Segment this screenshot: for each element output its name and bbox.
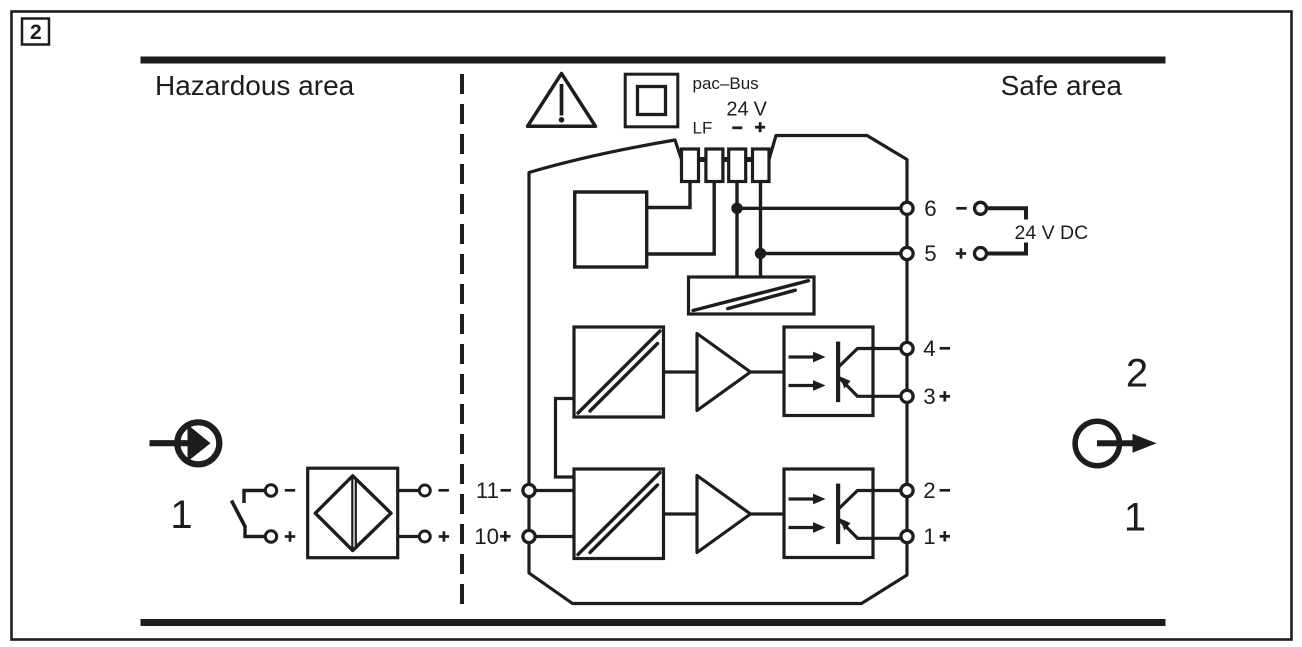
- channel 2 amplifier: [697, 476, 751, 553]
- channel 1 amplifier: [697, 334, 751, 411]
- svg-text:V: V: [754, 98, 768, 120]
- figure number box 2: [22, 19, 49, 45]
- 24 V DC supply minus sign: [956, 207, 966, 210]
- svg-text:3: 3: [923, 384, 935, 409]
- wire terminal 10 to channel2 iso: [529, 535, 574, 538]
- svg-text:Safe area: Safe area: [1001, 70, 1123, 101]
- svg-text:24: 24: [726, 98, 748, 120]
- channel 2 output stage: [784, 469, 900, 558]
- svg-text:4: 4: [923, 336, 935, 361]
- pin 24V plus: [753, 149, 770, 182]
- wire sensor box to terminal circle upper: [398, 489, 419, 492]
- svg-text:Hazardous area: Hazardous area: [155, 70, 355, 101]
- wire to terminal 5: [761, 252, 901, 255]
- switch contact: [232, 485, 277, 542]
- terminal 4: [901, 342, 913, 354]
- warning triangle: [528, 74, 596, 127]
- wire terminal 11 to channel2 iso: [529, 489, 574, 492]
- label sensor minus: [439, 489, 449, 492]
- svg-text:24 V DC: 24 V DC: [1015, 222, 1089, 244]
- wire channel2 iso to amplifier: [664, 512, 698, 515]
- sensor output circle plus: [419, 531, 430, 542]
- terminal 6: [901, 202, 913, 214]
- 24 V DC supply plus sign: [956, 248, 966, 258]
- terminal 11: [523, 484, 535, 496]
- terminal 2: [901, 484, 913, 496]
- 24 V DC supply plus circle: [975, 248, 987, 260]
- output symbol circle arrow: [1075, 421, 1156, 465]
- bottom boundary bar: [141, 619, 1166, 626]
- svg-text:2: 2: [1126, 351, 1148, 395]
- terminal 5: [901, 247, 913, 259]
- cascade wire channel1 iso to channel2 iso: [556, 399, 575, 478]
- wire 24VDC lower: [988, 243, 1027, 254]
- device outline: [529, 136, 907, 604]
- channel 2 isolation block: [574, 469, 664, 559]
- svg-text:5: 5: [924, 241, 936, 266]
- channel 1 isolation block: [574, 327, 664, 417]
- pin connector bar: [681, 157, 769, 162]
- protection class II double square symbol: [625, 74, 678, 127]
- junction dot pin3 bus: [731, 203, 742, 214]
- label switch minus: [285, 489, 295, 492]
- svg-text:pac–Bus: pac–Bus: [693, 74, 759, 93]
- wire 24VDC upper: [988, 208, 1027, 219]
- hazardous/safe divider dashed line: [460, 74, 464, 614]
- wire to terminal 6: [737, 207, 900, 210]
- 24 V DC supply minus circle: [975, 202, 987, 214]
- svg-text:2: 2: [30, 21, 42, 44]
- svg-text:11: 11: [476, 478, 499, 503]
- wire channel2 amplifier to output stage: [751, 512, 785, 515]
- svg-text:2: 2: [923, 478, 935, 503]
- terminal 3: [901, 390, 913, 402]
- svg-text:1: 1: [923, 524, 935, 549]
- label switch plus: [285, 531, 295, 541]
- wire channel1 iso to amplifier: [664, 370, 698, 373]
- terminal 1: [901, 530, 913, 542]
- label sensor plus: [439, 531, 449, 541]
- wire pin LF a to CPU block: [647, 182, 690, 208]
- input sensor symbol circle arrow: [150, 422, 220, 464]
- sensor output circle minus: [419, 485, 430, 496]
- bus pin LF a: [682, 149, 699, 182]
- channel 1 output stage: [784, 327, 900, 416]
- pin 24V minus: [729, 149, 746, 182]
- wire channel1 amplifier to output stage: [751, 370, 785, 373]
- wire pin 24V plus down: [759, 182, 762, 278]
- svg-text:10: 10: [474, 524, 499, 549]
- NAMUR sensor box: [308, 468, 398, 558]
- top boundary bar: [141, 57, 1166, 64]
- svg-text:LF: LF: [693, 119, 713, 138]
- power supply isolation block: [689, 277, 815, 314]
- junction dot pin4 bus: [755, 248, 766, 259]
- CPU block: [575, 192, 647, 267]
- label plus pin4: [755, 122, 765, 132]
- bus pin LF b: [706, 149, 723, 182]
- terminal 10: [523, 530, 535, 542]
- wire pin LF b to CPU block: [647, 182, 715, 255]
- wire pin 24V minus down: [735, 182, 738, 278]
- label minus pin3: [732, 126, 742, 129]
- svg-text:1: 1: [1124, 495, 1146, 539]
- svg-text:1: 1: [170, 493, 192, 537]
- wire sensor box to terminal circle lower: [398, 535, 419, 538]
- svg-text:6: 6: [924, 196, 936, 221]
